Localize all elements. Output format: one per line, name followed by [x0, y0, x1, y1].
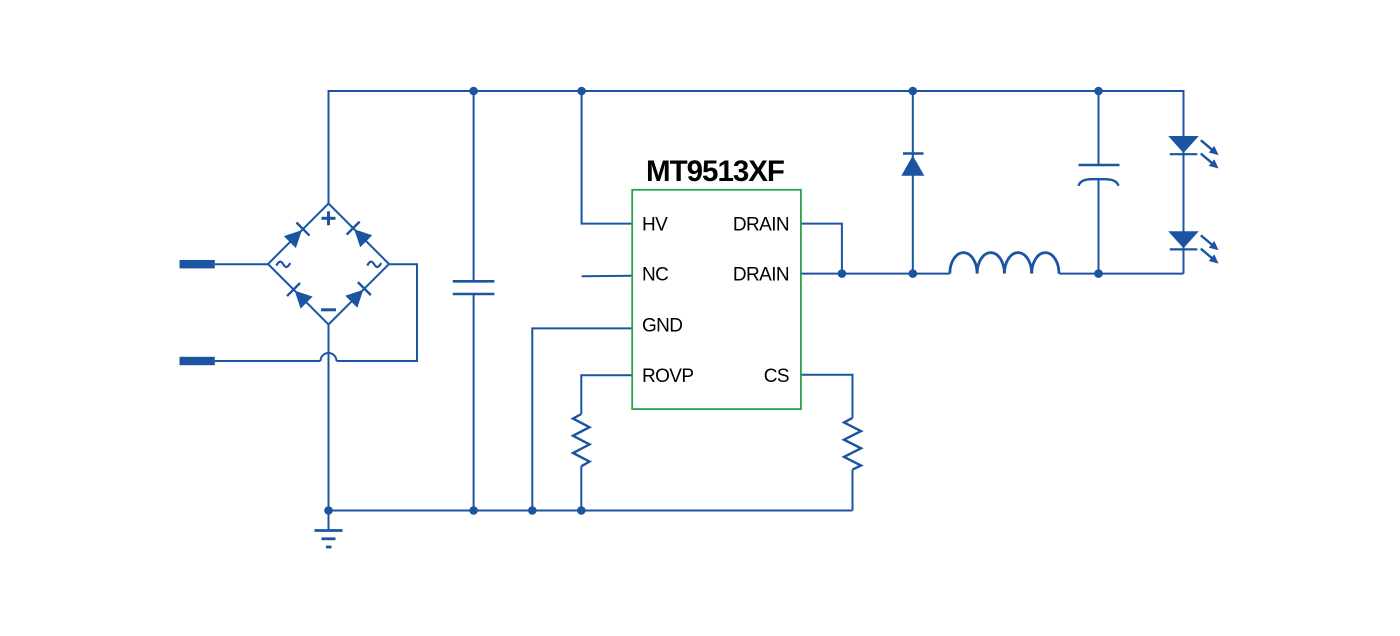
wire: crossover hop over bridge minus lead [321, 353, 337, 361]
junction: top bus / diode D1 cathode [909, 87, 918, 96]
bridge rectifier BR1 outline [268, 204, 389, 325]
wire: ground bus [329, 510, 853, 512]
svg-text:MT9513XF: MT9513XF [646, 155, 784, 188]
inductor L1 [950, 253, 1059, 274]
wire: bridge minus lead down to ground bus [328, 325, 330, 511]
svg-text:GND: GND [642, 315, 682, 336]
wire: R2 to ground bus [852, 470, 854, 511]
wire: DRAIN pin 1 down to drain net [801, 224, 842, 274]
svg-text:NC: NC [642, 265, 668, 286]
resistor R2 [844, 418, 861, 470]
label: bridge AC tilde right [367, 262, 381, 267]
capacitor C1 plates [453, 281, 495, 294]
junction: ground bus / C1 [469, 506, 478, 515]
wire: AC N to crossover hop [215, 360, 321, 362]
wire: top bus (VIN+ net) [329, 91, 1184, 204]
diode BR1-D2 (upper-right arm) [347, 222, 373, 248]
capacitor C2 plates (polarized) [1079, 165, 1120, 186]
svg-text:CS: CS [764, 366, 789, 387]
capacitor C1 bottom lead [473, 295, 475, 511]
label: bridge plus terminal [322, 211, 336, 225]
diode D1 leads (freewheel) [912, 91, 914, 274]
wire: hop to bridge right node [337, 264, 418, 361]
LED D2 body [1168, 136, 1199, 154]
LED D2 emission arrows [1198, 137, 1221, 172]
LED D3 body [1168, 231, 1199, 249]
wire: R1 to ground bus [580, 466, 582, 510]
terminal: AC input L [180, 260, 215, 268]
terminal: AC input N [180, 357, 215, 365]
wire: GND pin to ground bus [532, 328, 632, 510]
wire: inductor to LED return [1059, 273, 1184, 275]
junction: LED return / capacitor C2 [1094, 269, 1103, 278]
capacitor C1 top lead [473, 91, 475, 280]
diode BR1-D3 (lower-left arm) [287, 283, 313, 309]
junction: ground bus / bridge lead [324, 506, 333, 515]
wire: HV pin to top bus [582, 91, 633, 224]
svg-text:DRAIN: DRAIN [733, 265, 789, 286]
wire: AC L to bridge left node [215, 263, 268, 265]
wire: CS pin to resistor R2 [801, 375, 853, 418]
LED D3 emission arrows [1198, 232, 1221, 267]
wire: DRAIN pin 2 to inductor (drain net) [801, 273, 950, 275]
junction: drain net / DRAIN pin 1 [838, 269, 847, 278]
junction: top bus / capacitor C2 [1094, 87, 1103, 96]
svg-text:DRAIN: DRAIN [733, 215, 789, 236]
capacitor C2 bottom lead [1098, 180, 1100, 274]
junction: ground bus / R1 lead [577, 506, 586, 515]
junction: ground bus / GND pin lead [528, 506, 537, 515]
junction: top bus / C1 [469, 87, 478, 96]
diode D1 body [901, 154, 924, 176]
svg-text:HV: HV [642, 215, 668, 236]
svg-text:ROVP: ROVP [642, 366, 693, 387]
diode BR1-D1 (upper-left arm) [283, 223, 309, 249]
resistor R1 [573, 414, 590, 466]
junction: drain net / diode D1 anode [909, 269, 918, 278]
wire: LED string column [1183, 137, 1185, 274]
wire: ROVP pin to resistor R1 [581, 375, 632, 414]
junction: top bus / HV feed [577, 87, 586, 96]
wire: NC pin stub [582, 275, 633, 278]
capacitor C2 top lead [1098, 91, 1100, 164]
label: bridge AC tilde left [276, 262, 290, 267]
diode BR1-D4 (lower-right arm) [345, 282, 371, 308]
IC U1 body [632, 190, 801, 409]
label: bridge minus terminal [321, 308, 336, 311]
ground symbol [315, 511, 343, 548]
